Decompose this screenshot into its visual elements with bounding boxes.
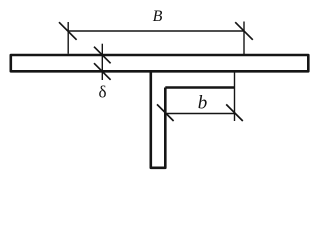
- dimension delta: bottom tick: [94, 63, 111, 80]
- dimension delta: witness line: [101, 44, 103, 80]
- dimension B: dimension line: [68, 30, 244, 32]
- svg-text:B: B: [153, 8, 163, 25]
- svg-text:δ: δ: [98, 83, 106, 102]
- svg-text:b: b: [198, 93, 208, 114]
- web plate: [151, 72, 166, 168]
- dimension B: left tick: [59, 22, 77, 40]
- dimension B: left extension line: [67, 22, 69, 54]
- dimension B: right extension line: [243, 22, 245, 55]
- dimension delta: top tick: [94, 47, 111, 64]
- dimension b: right extension line: [234, 73, 236, 122]
- dimension b: dimension line: [165, 113, 234, 115]
- dimension b: left tick: [157, 104, 174, 121]
- dimension B: right tick: [235, 22, 253, 40]
- effective zone boundary line: [165, 86, 234, 89]
- flange plate: [11, 55, 309, 71]
- dimension b: right tick: [226, 104, 243, 121]
